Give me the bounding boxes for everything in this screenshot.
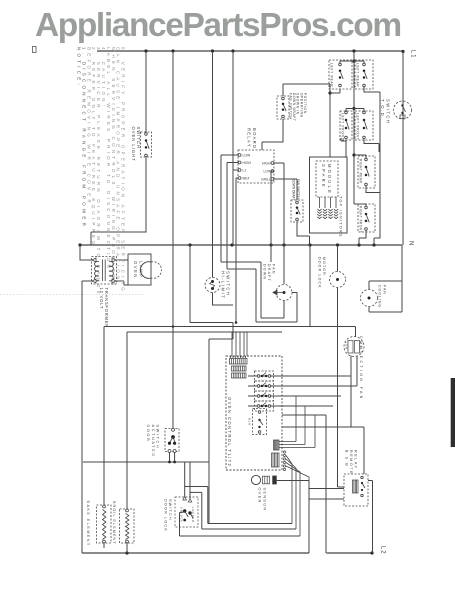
- header watermark AppliancePartsPros.com: [35, 7, 401, 45]
- svg-text:BROIL ELEMENT: BROIL ELEMENT: [112, 501, 116, 545]
- label BROIL ELEMENT: [112, 501, 116, 545]
- svg-text:SWITCH: SWITCH: [226, 271, 231, 296]
- bake top terminal: [103, 505, 106, 508]
- svg-text:B.S.B: B.S.B: [345, 450, 349, 467]
- control contacts box row 2: [255, 381, 274, 391]
- wire relay HIGH right: [274, 163, 284, 245]
- svg-text:SWITCH: SWITCH: [156, 425, 160, 450]
- label OVEN LIGHT SWITCH: [131, 127, 141, 162]
- node N rail junction x359: [357, 243, 360, 246]
- stray scan mark: [33, 47, 37, 53]
- bsb remote relay box: [344, 474, 368, 506]
- svg-text:DRAFT: DRAFT: [267, 264, 271, 282]
- svg-text:OVEN LIGHT: OVEN LIGHT: [131, 127, 136, 162]
- wire bsb drop to L2 rail: [308, 499, 310, 553]
- label CONVECTION FAN: [359, 336, 363, 401]
- control pin column: [283, 451, 285, 471]
- fan switch down draft box: [277, 96, 289, 119]
- svg-text:4. CAUTION:: 4. CAUTION:: [101, 47, 106, 109]
- wire hi-limit return: [213, 293, 234, 306]
- notice text block lines 1-2: [77, 47, 87, 229]
- svg-text:LOW: LOW: [345, 342, 349, 350]
- label BLK: [248, 418, 252, 426]
- svg-text:SPARK: SPARK: [321, 164, 326, 189]
- svg-text:UNLOCK: UNLOCK: [180, 507, 184, 523]
- label 12 VOLT TRANSFORMER: [99, 288, 109, 329]
- wire spark n drop: [309, 245, 311, 327]
- wire transformer primary bottom: [82, 281, 92, 553]
- svg-text:L1: L1: [243, 168, 247, 172]
- broil element: [126, 514, 129, 540]
- node das left: [168, 461, 171, 464]
- fan switch down draft contacts: [282, 97, 287, 118]
- wire door switch feed: [172, 51, 174, 428]
- wire dls feed 1: [184, 462, 186, 497]
- svg-text:FAN SWITCH: FAN SWITCH: [289, 93, 293, 120]
- right rear switch box: [358, 156, 375, 188]
- wire relay GRILL right: [274, 179, 297, 200]
- comb 1 wires: [279, 396, 315, 448]
- svg-text:SENSOR: SENSOR: [263, 488, 268, 512]
- right front switch box: [358, 204, 375, 232]
- wire ddf n stub: [270, 245, 272, 262]
- svg-text:CAN CAUSE IMPROPER AND UNSAFE: CAN CAUSE IMPROPER AND UNSAFE OPERATION.: [116, 47, 121, 287]
- wire row1 tops: [340, 61, 364, 64]
- wire N rail: [80, 244, 402, 246]
- down draft fan switch contacts: [296, 201, 301, 221]
- oven light switch box: [141, 132, 152, 157]
- svg-text:FAN: FAN: [271, 264, 275, 275]
- wire L2 bottom rail right: [328, 552, 373, 554]
- wire lower frame: [83, 461, 209, 463]
- oven control coil 3: [232, 373, 247, 378]
- wire convection fan bottom B: [356, 356, 358, 386]
- label DOWN DRAFT FAN SWITCH: [292, 179, 300, 201]
- svg-text:RIGHT REAR: RIGHT REAR: [359, 159, 363, 184]
- wire ddf outer route: [221, 262, 284, 318]
- svg-text:SHOWN IN: SHOWN IN: [296, 93, 300, 115]
- wire transformer primary top: [80, 245, 92, 260]
- left rear switch box A: [329, 60, 352, 89]
- wire ddf bottom: [283, 301, 285, 319]
- label LEFT FRONT A: [341, 113, 345, 140]
- svg-text:DOWN: DOWN: [263, 264, 267, 280]
- wire met horizontal: [190, 323, 233, 524]
- wire bake stub: [103, 543, 105, 548]
- left rear switch B: [363, 63, 368, 87]
- svg-text:NOTICE:: NOTICE:: [77, 47, 82, 88]
- wire oven light feed: [145, 51, 147, 133]
- wire row5 drop: [326, 415, 328, 553]
- node L1 corner: [401, 50, 404, 53]
- wire cooling fan bottom: [369, 307, 402, 313]
- control connector comb 1: [274, 440, 280, 450]
- svg-text:RIGHT FRONT: RIGHT FRONT: [359, 206, 363, 233]
- svg-text:WHEN SERVICING CONTROLS. WIRIN: WHEN SERVICING CONTROLS. WIRING PROBLEMS: [111, 47, 116, 288]
- label DOOR LOCK MOTOR: [318, 257, 327, 289]
- node N rail junction x337.5: [336, 243, 339, 246]
- convection fan: [344, 337, 364, 357]
- label LEFT REAR B: [356, 63, 360, 88]
- wire oven light return: [91, 158, 146, 246]
- relay board left pins: [238, 154, 241, 180]
- wire control row 2: [248, 385, 357, 387]
- hi-limit switch: [205, 278, 220, 293]
- svg-text:RELAY: RELAY: [247, 128, 252, 148]
- svg-text:SWITCH: SWITCH: [385, 99, 390, 124]
- wire burner bus: [353, 51, 355, 204]
- wire ignitor feed A link: [330, 89, 340, 93]
- pin fan wires: [286, 456, 309, 537]
- svg-text:BLK: BLK: [248, 418, 252, 426]
- svg-text:N: N: [408, 241, 414, 246]
- wire door lock motor line: [338, 245, 345, 487]
- wire row4 return: [359, 231, 366, 246]
- svg-text:MODULE: MODULE: [327, 164, 332, 195]
- cooling fan: [361, 290, 378, 307]
- broil element box: [120, 509, 135, 543]
- svg-text:OVEN CONTROL T1/T2: OVEN CONTROL T1/T2: [227, 397, 232, 467]
- transformer 12V: [92, 258, 116, 283]
- label L1: [410, 50, 416, 58]
- bsb relay coil: [353, 480, 359, 493]
- svg-text:BEFORE REMOVING WIRE COVER.: BEFORE REMOVING WIRE COVER.: [86, 47, 91, 211]
- node N rail junction x284: [282, 243, 285, 246]
- node N rail junction x232: [230, 243, 233, 246]
- node met join: [235, 321, 238, 324]
- label RIGHT FRONT: [359, 206, 363, 233]
- node L2 corner: [370, 551, 373, 554]
- wire ignitor feed B: [341, 138, 346, 157]
- svg-text:OVEN: OVEN: [258, 488, 263, 504]
- door lock switch box: [175, 497, 198, 527]
- left front switch A: [345, 111, 350, 139]
- svg-text:DOWN DRAFT: DOWN DRAFT: [292, 93, 296, 122]
- svg-text:MOTOR: MOTOR: [322, 257, 326, 276]
- wire sensor lead: [277, 480, 309, 482]
- wire row4 feed: [354, 204, 366, 207]
- control contacts box row 3: [255, 391, 274, 401]
- wire fan switch top: [283, 84, 330, 96]
- svg-text:LABEL ALL WIRES PRIOR TO DISCO: LABEL ALL WIRES PRIOR TO DISCONNECTION: [106, 47, 111, 271]
- wire dls feed 2: [189, 462, 191, 499]
- label SPARK MODULE: [321, 164, 332, 195]
- BLK contacts: [258, 411, 263, 434]
- oven light switch: [145, 133, 150, 157]
- right rear switch: [365, 158, 370, 186]
- wire L1-TOD vertical: [402, 51, 404, 245]
- wire ddf feed: [283, 245, 285, 284]
- oven control box: [226, 356, 282, 470]
- control relay contacts row 3: [257, 393, 271, 398]
- label OVEN SENSOR: [258, 488, 268, 512]
- wire relay LOW left: [221, 155, 238, 262]
- control relay contacts row 4: [257, 403, 271, 408]
- node burner bus row2: [352, 107, 355, 110]
- wire control row5: [282, 414, 326, 416]
- svg-text:GRILL: GRILL: [261, 177, 271, 181]
- wire relay MET left: [236, 178, 238, 322]
- wire ddf inner route: [227, 269, 297, 322]
- oven sensor: [251, 475, 276, 484]
- label LEFT REAR A: [330, 63, 334, 88]
- svg-text:LAMP: LAMP: [138, 261, 143, 278]
- wire broil drop: [126, 332, 128, 509]
- wire hi-limit feed: [212, 51, 214, 278]
- label FAN SWITCH DOWN DRAFT: [289, 93, 307, 122]
- left rear switch box B: [355, 60, 373, 89]
- wire das bottoms: [170, 452, 175, 462]
- door actuated switch contacts: [168, 428, 176, 452]
- wire control row 3: [248, 395, 341, 397]
- node top rail junction x173: [171, 49, 174, 52]
- wire control row 1: [248, 375, 351, 377]
- label TOP IGNITORS: [339, 196, 343, 238]
- node top rail junction x146: [144, 49, 147, 52]
- label BAKE ELEMENT: [86, 501, 90, 547]
- wire transformer secondary top: [116, 259, 128, 261]
- broil top terminal: [126, 509, 129, 512]
- svg-text:DOOR: DOOR: [146, 425, 150, 443]
- scan fold line: [0, 294, 145, 296]
- svg-text:POSITION: POSITION: [303, 93, 307, 114]
- node N rail junction x80: [78, 243, 81, 246]
- svg-text:OVEN: OVEN: [133, 261, 138, 279]
- broil bottom terminal: [126, 540, 129, 543]
- relay board pin labels: [243, 153, 273, 181]
- bsb relay contacts: [361, 476, 365, 496]
- svg-text:LEFT REAR: LEFT REAR: [356, 63, 360, 88]
- svg-text:3. SERVICER PLEASE RETURN DIAG: 3. SERVICER PLEASE RETURN DIAGRAM TO RAN…: [96, 47, 101, 302]
- svg-text:1. DISCONNECT RANGE FROM POWER: 1. DISCONNECT RANGE FROM POWER: [81, 47, 86, 229]
- svg-text:BAKE ELEMENT: BAKE ELEMENT: [86, 501, 90, 547]
- spark module dashed box: [316, 161, 338, 197]
- node N rail junction x190: [188, 243, 191, 246]
- node top rail junction x354: [352, 49, 355, 52]
- wire bsb top feed: [363, 427, 365, 474]
- label DOOR LOCK SWITCH: [164, 499, 173, 532]
- control connector comb 2: [272, 453, 280, 467]
- wire dls path 3: [180, 512, 301, 536]
- wire dls path 1: [185, 487, 292, 524]
- svg-text:LOW: LOW: [243, 153, 252, 157]
- svg-text:RELAY: RELAY: [354, 450, 358, 470]
- svg-text:HIGH: HIGH: [262, 161, 271, 165]
- transformer dashed outline: [92, 257, 117, 285]
- wire control row 4: [248, 405, 333, 407]
- node burner bus row1: [352, 59, 355, 62]
- wire row3 right return: [366, 186, 380, 193]
- oven control coil 1: [230, 359, 248, 365]
- svg-text:COOLING: COOLING: [378, 285, 382, 308]
- node N rail junction x310: [308, 243, 311, 246]
- label LOCKED: [191, 507, 195, 523]
- node das right: [173, 461, 176, 464]
- label L2: [380, 546, 386, 554]
- down draft fan: [273, 285, 292, 301]
- svg-text:FAN SWITCH: FAN SWITCH: [296, 179, 300, 199]
- svg-text:FAN: FAN: [382, 285, 386, 295]
- control contacts box row 4: [255, 401, 274, 411]
- svg-text:LOCKED: LOCKED: [191, 507, 195, 523]
- control relay contacts row 2: [257, 383, 271, 388]
- wire cooling fan top: [369, 245, 402, 312]
- wire relay LOW right: [271, 171, 274, 245]
- wire row2 tops: [346, 109, 364, 112]
- door lock switch contacts: [183, 497, 193, 522]
- node bus A x174: [172, 325, 175, 328]
- node N rail junction x374: [372, 243, 375, 246]
- wire bsb to L2: [368, 481, 373, 554]
- label B.S.B REMOTE RELAY: [345, 450, 358, 475]
- svg-text:5. VERIFY PROPER OPERATION AFT: 5. VERIFY PROPER OPERATION AFTER SERVICI…: [121, 47, 126, 299]
- svg-text:TRANSFORMER: TRANSFORMER: [104, 288, 109, 329]
- svg-text:SWITCH: SWITCH: [136, 127, 141, 149]
- label COOLING FAN: [378, 285, 387, 308]
- notice text block lines 3-10: [86, 47, 125, 302]
- wire burner staircase: [374, 92, 380, 245]
- label RELAY BOARD: [247, 128, 257, 149]
- svg-text:T.O.D.: T.O.D.: [380, 99, 385, 120]
- svg-text:SWITCH: SWITCH: [168, 499, 172, 521]
- wire bus horizontal A: [104, 326, 356, 328]
- wire row2 right return: [364, 140, 379, 153]
- svg-text:HI-LIMIT: HI-LIMIT: [221, 271, 226, 299]
- wire L1 top rail: [97, 50, 403, 52]
- node ignitor feed A junction: [328, 91, 331, 94]
- svg-text:2. REFER ONLY TO FEATURES EQUI: 2. REFER ONLY TO FEATURES EQUIPPED: [91, 47, 96, 248]
- svg-text:TOP IGNITORS: TOP IGNITORS: [339, 196, 343, 238]
- label DOOR ACTUATED SWITCH: [146, 425, 160, 458]
- oven control coil 2: [232, 366, 247, 371]
- control BLK contacts box: [253, 409, 267, 435]
- wire bsb left feed A: [309, 481, 344, 489]
- door actuated switch box: [165, 429, 179, 452]
- scan artifact bar: [451, 378, 455, 447]
- label RIGHT REAR: [359, 159, 363, 184]
- wire broil stub: [126, 543, 128, 553]
- node broil junction: [125, 551, 128, 554]
- label HI-LIMIT SWITCH: [221, 271, 231, 299]
- svg-text:OPERATING: OPERATING: [299, 93, 303, 118]
- svg-text:CONVECTION FAN: CONVECTION FAN: [359, 336, 363, 401]
- bake bottom terminal: [103, 540, 106, 543]
- right front switch: [365, 206, 370, 230]
- svg-text:DOWN DRAFT: DOWN DRAFT: [292, 179, 296, 201]
- wire relay feed vertical: [232, 51, 234, 245]
- label convection fan windings2: [359, 341, 363, 350]
- wire relay L1 left: [233, 169, 238, 171]
- control contacts box row 1: [255, 371, 274, 381]
- oven control feed bundle: [232, 332, 247, 356]
- top ignitors: [317, 197, 338, 219]
- svg-text:DOOR LOCK: DOOR LOCK: [164, 499, 168, 532]
- wire fan switch bottom: [262, 119, 283, 150]
- spark module outer box: [310, 157, 348, 233]
- svg-text:LEFT REAR: LEFT REAR: [330, 63, 334, 88]
- left front switch box B: [355, 111, 373, 140]
- svg-text:ACTUATED: ACTUATED: [151, 425, 155, 458]
- label OVEN CONTROL T1/T2: [227, 397, 232, 467]
- wire convection fan feed: [355, 327, 357, 338]
- wire ddf switch bottom: [297, 222, 310, 245]
- node top rail junction x233: [231, 49, 234, 52]
- wire bus horizontal B: [127, 331, 282, 333]
- relay board right pins: [271, 162, 274, 181]
- bake element: [103, 510, 106, 540]
- oven control pin dots: [230, 356, 246, 357]
- label UNLOCK: [180, 507, 184, 523]
- label T.O.D. SWITCH: [380, 99, 390, 124]
- wire bsb left feed B: [309, 489, 344, 500]
- label N: [408, 241, 414, 246]
- left front switch box A: [340, 111, 352, 140]
- node N rail junction x271: [269, 243, 272, 246]
- wire bake drop: [103, 327, 105, 506]
- wire ignitor feed A: [329, 84, 331, 157]
- wire transformer secondary bottom: [116, 281, 128, 285]
- svg-text:L1: L1: [410, 50, 416, 58]
- wire dls path 2: [190, 492, 296, 529]
- svg-text:DOOR LOCK: DOOR LOCK: [318, 257, 322, 289]
- label convection fan windings: [345, 342, 349, 350]
- bake element box: [97, 505, 112, 543]
- node burner bus row3: [352, 153, 355, 156]
- oven lamp: [128, 254, 162, 285]
- down draft fan switch box: [291, 200, 303, 222]
- svg-text:HIGH: HIGH: [243, 161, 252, 165]
- svg-text:MET: MET: [243, 176, 250, 180]
- svg-text:BOARD: BOARD: [252, 128, 257, 149]
- wire left drop x190: [189, 245, 191, 323]
- svg-text:L2: L2: [380, 546, 386, 554]
- label DOWN DRAFT FAN: [263, 264, 276, 282]
- svg-text:LEFT FRONT: LEFT FRONT: [356, 113, 360, 140]
- wire relay HIGH left: [227, 163, 238, 270]
- svg-text:REMOTE: REMOTE: [349, 450, 353, 475]
- relay board box: [238, 150, 274, 183]
- svg-text:LEFT FRONT: LEFT FRONT: [341, 113, 345, 140]
- label LEFT FRONT B: [356, 113, 360, 140]
- left front switch B: [363, 111, 368, 139]
- wire convection fan bottom A: [350, 356, 352, 428]
- wire L2 bottom rail left: [82, 552, 309, 554]
- node top rail junction x212.5: [211, 49, 214, 52]
- wire control row6: [282, 426, 364, 428]
- wire row3 feed: [354, 155, 366, 159]
- left rear switch A: [339, 63, 344, 87]
- door lock motor: [330, 272, 346, 288]
- wire row1 right return: [364, 87, 380, 92]
- label OVEN LAMP: [133, 261, 143, 279]
- control relay contacts row 1: [257, 373, 271, 378]
- T.O.D. switch: [394, 101, 412, 119]
